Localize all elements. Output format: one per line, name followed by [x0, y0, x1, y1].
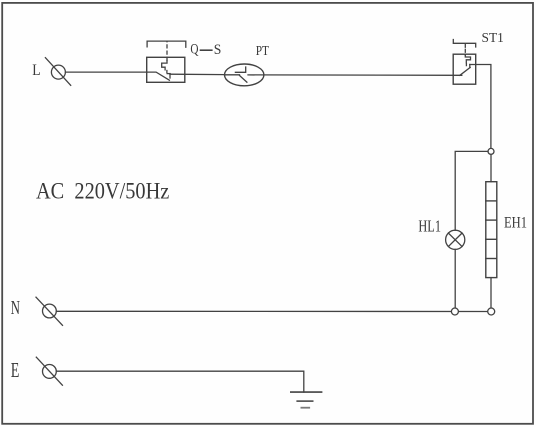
wire PT to ST1 [248, 74, 462, 76]
wire Q to PT [170, 73, 225, 75]
breaker Q blade [147, 72, 170, 80]
thermostat PT left lead [225, 74, 240, 76]
svg-text:ST1: ST1 [482, 31, 504, 46]
svg-text:AC 220V/50Hz: AC 220V/50Hz [36, 179, 169, 205]
svg-text:Q: Q [190, 42, 199, 58]
svg-text:EH1: EH1 [504, 212, 527, 231]
label Q-S dash [201, 49, 212, 51]
node C heater junction [488, 308, 495, 315]
svg-text:S: S [214, 42, 222, 58]
thermostat PT blade [240, 76, 247, 83]
breaker Q hook [167, 73, 170, 75]
thermostat ST1 blade [460, 67, 470, 75]
breaker Q bracket [147, 41, 186, 47]
ground symbol [291, 392, 322, 408]
label Q-S [190, 42, 221, 58]
breaker Q box [147, 57, 185, 82]
node B lamp junction [451, 308, 458, 315]
terminal N [36, 297, 63, 325]
svg-text:E: E [11, 358, 20, 382]
terminal L [45, 58, 70, 86]
terminal E [36, 357, 62, 385]
node A top junction [488, 148, 494, 154]
wire branch node A to lamp column [455, 151, 488, 230]
wire node A to EH1 [490, 154, 492, 181]
svg-text:PT: PT [256, 44, 270, 59]
breaker Q fixed contact [169, 74, 171, 78]
wire L to Q [65, 71, 146, 73]
breaker Q trip zigzag [162, 61, 167, 70]
wire N rail [56, 310, 488, 312]
thermostat ST1 bracket [453, 40, 475, 48]
svg-text:L: L [32, 62, 40, 79]
wire ST1 output to right rail [470, 65, 491, 149]
heater EH1 [486, 182, 497, 278]
lamp HL1 [446, 230, 465, 249]
thermostat ST1 box [453, 54, 476, 84]
svg-text:N: N [11, 297, 20, 319]
thermostat PT contact bar [235, 67, 245, 72]
thermostat ST1 dashed link [464, 43, 466, 55]
thermostat PT ellipse [225, 64, 264, 86]
wire E to ground [56, 371, 303, 392]
breaker Q lower dash [166, 71, 168, 73]
wire EH1 to node C [490, 278, 492, 308]
wire lamp to node B [454, 249, 456, 308]
thermostat ST1 trip zigzag [465, 55, 470, 63]
thermostat ST1 lower dash [465, 64, 467, 66]
breaker Q actuator dashed link [166, 41, 168, 60]
thermostat ST1 fixed contact [469, 65, 471, 68]
svg-text:HL1: HL1 [418, 216, 441, 235]
